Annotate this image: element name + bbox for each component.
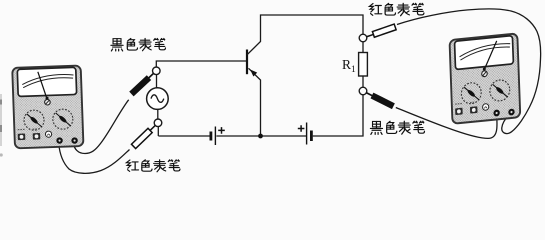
meter body (12, 66, 83, 149)
wire lead left meter jack2 to black probe (73, 100, 128, 154)
wire lead left meter jack1 to red probe (59, 144, 130, 174)
battery B2 positive plate (306, 123, 308, 145)
meter left dial (24, 110, 45, 131)
meter ohm adjust (45, 131, 51, 137)
meter scale arc (459, 43, 510, 60)
meter terminal label marks (18, 128, 40, 131)
transistor Q1 emitter arrow (PNP) (250, 69, 257, 76)
label red probe top-right (369, 3, 424, 15)
transistor Q1 emitter lead (249, 68, 261, 136)
wire bottom terminal to battery wire (157, 127, 159, 136)
probe red left (on bottom terminal) (131, 123, 157, 148)
node terminal bottom of R1 branch (359, 87, 367, 95)
meter jack 1 (56, 137, 63, 144)
resistor R1 (359, 53, 368, 77)
wire lead right black probe to right meter jack1 (396, 108, 497, 139)
wire base horizontal from AC source to transistor (156, 61, 247, 67)
scan edge marks (0, 94, 3, 157)
battery B2 plus sign (298, 125, 305, 132)
transistor Q1 collector lead (247, 15, 363, 55)
meter terminal label marks (455, 102, 477, 104)
meter terminal square 1 (455, 108, 463, 115)
meter jack 2 (71, 137, 78, 144)
wire R1 to lower node (362, 76, 364, 87)
AC source sine symbol (151, 95, 164, 103)
meter ohm adjust (482, 103, 488, 110)
AC source G1 circle (147, 88, 169, 110)
transistor Q1 base bar (246, 50, 248, 75)
terminal top of AC source (153, 67, 161, 75)
probe black right (on bottom node) (365, 90, 395, 109)
junction node emitter/batteries (258, 134, 263, 139)
label red probe bottom-left (126, 160, 180, 172)
meter needle (483, 41, 497, 70)
wire node to R1 (362, 42, 364, 53)
meter jack 1 (493, 109, 500, 116)
meter display window (455, 36, 514, 70)
probe red right (on top node) (366, 24, 397, 40)
meter body (450, 33, 521, 123)
meter zero screw (45, 99, 51, 105)
meter terminal square 2 (33, 133, 41, 140)
meter terminal square 1 (18, 133, 26, 140)
probe black left (on top terminal) (129, 71, 155, 96)
meter zero screw (482, 71, 488, 77)
meter terminal square 2 (470, 106, 478, 113)
meter pivot (483, 67, 486, 70)
battery B1 positive plate (214, 127, 216, 146)
wire battery B1 to AC source branch (158, 135, 209, 137)
meter jack 2 (508, 108, 515, 115)
terminal bottom of AC source (154, 119, 162, 127)
meter display window (17, 67, 76, 96)
wire AC source to bottom terminal (157, 109, 159, 119)
meter left dial (461, 82, 482, 105)
battery B1 plus sign (218, 127, 225, 134)
battery B2 negative plate (310, 131, 313, 142)
wire lower node down and left to battery B2 (313, 95, 363, 136)
label black probe top-left (111, 38, 166, 51)
wire battery B2 to junction to battery B1 (216, 135, 306, 137)
meter right dial (490, 79, 511, 102)
meter needle (38, 72, 47, 100)
node terminal top of R1 branch (359, 34, 367, 42)
meter scale arc (22, 74, 74, 88)
battery B1 negative plate (209, 132, 212, 141)
meter right dial (52, 109, 73, 130)
wire lead right red probe around to right meter jack2 (397, 9, 541, 134)
multimeter left (12, 66, 83, 149)
wire terminal to AC source (156, 75, 158, 89)
multimeter right (450, 33, 521, 123)
meter pivot (46, 97, 49, 100)
label black probe bottom-right (370, 121, 424, 134)
